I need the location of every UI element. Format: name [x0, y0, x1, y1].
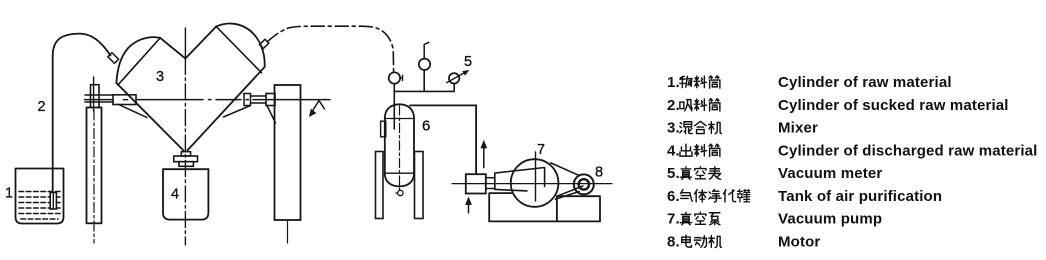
left bearing block — [113, 95, 136, 105]
left stand centerline — [93, 110, 95, 243]
tank 6 left leg — [376, 152, 384, 219]
motor 8 pulley outer — [574, 174, 594, 194]
belt upper — [551, 163, 579, 175]
pipe strainer tip inside tank 1 — [50, 193, 56, 210]
svg-text:Vacuum meter: Vacuum meter — [778, 165, 882, 182]
mixer vertical centerline — [184, 28, 186, 59]
svg-text:8.: 8. — [667, 233, 680, 250]
tank 6 left nozzle — [381, 121, 386, 137]
right stand — [275, 85, 301, 220]
legend item 6 chinese 气体净化罐 — [680, 190, 692, 202]
pump-motor centerline — [452, 183, 612, 185]
svg-text:7: 7 — [537, 142, 545, 158]
legend item 7 chinese 真空泵 — [680, 212, 691, 225]
legend item 1 chinese 物料筒 — [680, 76, 692, 87]
base motor mount diagonal — [557, 186, 583, 196]
svg-text:Motor: Motor — [778, 233, 820, 250]
svg-text:3: 3 — [156, 69, 164, 85]
svg-text:Cylinder of raw material: Cylinder of raw material — [778, 74, 952, 91]
legend item 3 chinese 混合机 — [680, 122, 692, 134]
pump horn — [495, 168, 545, 191]
discharge stub at cone vertex — [181, 152, 190, 156]
legend item 5 chinese 真空表 — [680, 167, 691, 180]
vacuum meter 5 — [449, 73, 459, 83]
valve side stub — [400, 75, 403, 80]
left trunnion bracket — [91, 85, 100, 108]
vacuum pump 7 body — [511, 159, 559, 207]
mixer horizontal axis (dash-dot) — [85, 99, 331, 101]
svg-text:6: 6 — [422, 118, 430, 135]
mixer right dome chord (weld line) — [216, 27, 261, 73]
right axle — [251, 96, 267, 103]
valve on dip tube — [389, 72, 400, 83]
right outlet nozzle on dome — [260, 39, 269, 48]
discharge flange narrow — [179, 162, 193, 167]
svg-text:3.: 3. — [667, 120, 680, 137]
belt lower — [555, 192, 579, 200]
manifold pipe — [394, 70, 454, 92]
svg-text:Cylinder of discharged raw mat: Cylinder of discharged raw material — [778, 142, 1038, 159]
mixer 3 : left dome — [116, 37, 160, 83]
suction pipe 2 — [53, 34, 111, 192]
mixer right dome — [216, 24, 264, 67]
left axle — [85, 95, 113, 102]
LEGEND — [667, 74, 1038, 250]
cylinder 1 (raw material tank) — [16, 169, 64, 224]
left stand — [87, 108, 102, 224]
legend item 8 chinese 电动机 — [682, 235, 692, 247]
tank 6 bottom dome — [385, 173, 414, 186]
svg-text:Tank of air purification: Tank of air purification — [778, 188, 942, 205]
motor 8 pulley inner — [579, 179, 589, 189]
mixer left arm top edge — [160, 38, 185, 59]
right gusset outer — [267, 106, 276, 124]
right stand centerline below — [287, 220, 289, 243]
pipe tank6 to pump — [410, 105, 476, 174]
legend item 4 chinese 出料筒 — [680, 144, 692, 156]
flow arrow above pump inlet — [483, 146, 485, 168]
pump inlet connector — [486, 178, 495, 189]
svg-text:2: 2 — [38, 99, 46, 115]
svg-text:4: 4 — [171, 187, 179, 203]
tank 6 drain valve — [398, 190, 403, 195]
svg-text:Mixer: Mixer — [778, 120, 818, 137]
base left block — [489, 193, 600, 221]
left suction nozzle on dome — [108, 53, 119, 64]
mixer cone left edge — [116, 83, 183, 151]
svg-text:2.: 2. — [667, 97, 680, 114]
left gusset — [119, 105, 148, 118]
mixer left dome chord (weld line) — [118, 38, 160, 85]
svg-text:1: 1 — [5, 186, 13, 202]
pump inlet box — [466, 174, 486, 193]
left trunnion pin — [93, 77, 95, 111]
svg-text:Vacuum pump: Vacuum pump — [778, 211, 882, 228]
legend item 2 chinese 吸料筒 — [680, 100, 692, 111]
tank 6 seam lines — [385, 119, 414, 174]
cylinder 4 (discharged material container) — [163, 169, 208, 219]
right collar block — [244, 94, 251, 106]
tank 6 right leg — [415, 152, 424, 219]
tank 6 top dome — [385, 104, 414, 118]
svg-text:8: 8 — [595, 165, 603, 181]
svg-text:4.: 4. — [667, 142, 680, 159]
tank 6 centerline — [399, 106, 401, 190]
svg-text:5: 5 — [464, 54, 472, 70]
label 7 leader — [535, 152, 537, 201]
discharge flange wide — [174, 156, 198, 162]
svg-text:7.: 7. — [667, 211, 680, 228]
svg-text:6.: 6. — [667, 188, 680, 205]
tank 6 (air purification) body — [385, 119, 414, 174]
liquid level dashes in tank 1 — [19, 192, 60, 220]
mixer cone right edge — [187, 67, 264, 151]
right bearing block — [266, 94, 275, 106]
mixer right arm top edge — [185, 27, 216, 59]
valve 2 with handle — [419, 59, 430, 70]
svg-text:1.: 1. — [667, 74, 680, 91]
flexible vacuum hose (dash-dot) — [268, 26, 394, 72]
dip tube into tank 6 — [393, 84, 395, 129]
right gusset inner — [224, 106, 251, 118]
svg-text:5.: 5. — [667, 165, 680, 182]
axis end arrow — [312, 101, 325, 113]
svg-text:Cylinder of sucked raw materia: Cylinder of sucked raw material — [778, 97, 1009, 114]
flow arrow below pump inlet — [468, 203, 470, 213]
